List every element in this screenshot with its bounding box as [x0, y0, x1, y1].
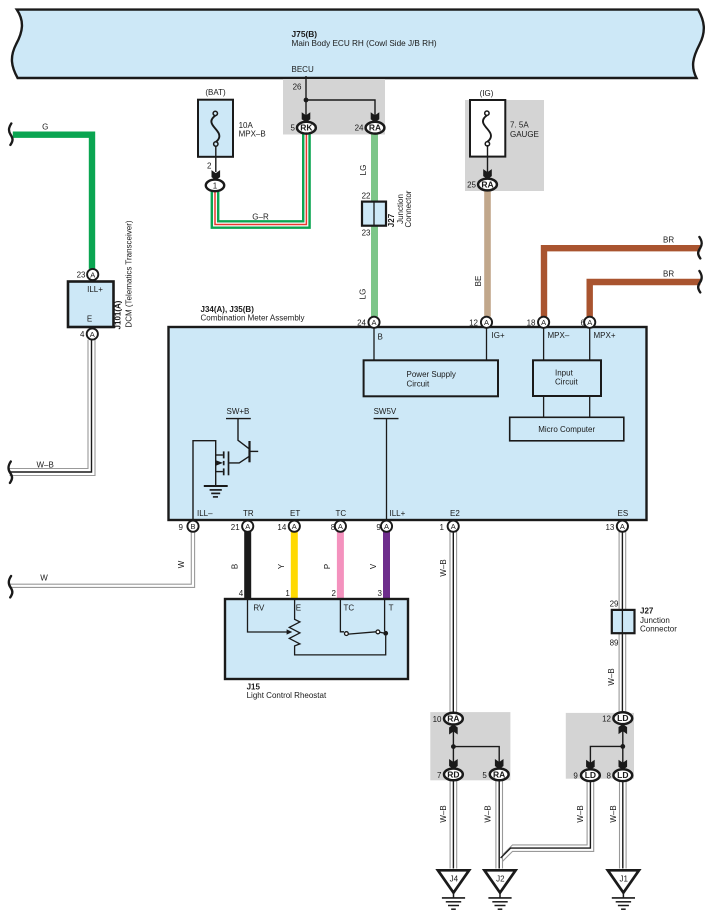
DCM J101(A) box [68, 282, 114, 328]
svg-text:10: 10 [433, 715, 442, 724]
wire W-B from 7 RD to ground J4 [450, 780, 457, 868]
svg-text:A: A [245, 522, 250, 531]
svg-text:18: 18 [527, 319, 536, 328]
svg-text:21: 21 [231, 523, 240, 532]
connector RA pin 25 [478, 179, 497, 191]
svg-text:B: B [378, 333, 383, 342]
svg-text:12: 12 [469, 319, 478, 328]
svg-text:ILL+: ILL+ [87, 285, 103, 294]
break W wire [9, 576, 13, 597]
wire B (black) TR to J15 pin 4 [244, 532, 251, 602]
svg-text:TC: TC [336, 509, 347, 518]
micro computer box [510, 417, 624, 441]
svg-text:W–B: W–B [609, 805, 618, 822]
pin 12 A [481, 317, 492, 328]
svg-text:2: 2 [331, 589, 336, 598]
svg-text:1: 1 [213, 181, 218, 190]
internal wire ILL- loop [193, 441, 216, 521]
svg-text:5: 5 [482, 771, 487, 780]
svg-text:Combination Meter Assembly: Combination Meter Assembly [201, 314, 305, 323]
internal wire MPX- to input circuit [543, 328, 545, 360]
svg-text:J1: J1 [619, 875, 628, 884]
svg-text:6: 6 [581, 319, 586, 328]
svg-text:MPX+: MPX+ [594, 331, 616, 340]
svg-text:J27: J27 [640, 607, 654, 616]
svg-text:7: 7 [437, 771, 442, 780]
wire V (violet) ILL+ to J15 pin 3 [383, 532, 390, 602]
pin 18 A [538, 317, 549, 328]
svg-text:4: 4 [80, 330, 85, 339]
pin 21 A [242, 521, 253, 532]
svg-text:B: B [190, 522, 195, 531]
svg-text:BECU: BECU [292, 65, 314, 74]
connector RA pin 24 [366, 122, 385, 134]
svg-text:J101(A): J101(A) [114, 300, 123, 329]
svg-text:9: 9 [179, 523, 184, 532]
svg-text:10A: 10A [239, 121, 254, 130]
input circuit box [533, 360, 601, 396]
wire W-B from 8 LD to ground J1 [620, 781, 627, 869]
svg-text:W–B: W–B [37, 461, 54, 470]
wire W from meter ILL- to left break [10, 532, 195, 588]
svg-text:Y: Y [277, 563, 286, 569]
svg-text:25: 25 [467, 181, 476, 190]
svg-text:MPX–: MPX– [548, 331, 570, 340]
wire BR lower (MPX+) [590, 282, 701, 317]
junction connector J27 box 2 [612, 610, 635, 633]
internal wire MPX+ to input circuit [589, 328, 591, 360]
rheostat wiper wire RV [248, 600, 288, 632]
svg-text:Light Control Rheostat: Light Control Rheostat [247, 691, 327, 700]
connector LD pin 9 [581, 769, 600, 781]
svg-text:13: 13 [605, 523, 614, 532]
svg-text:LD: LD [585, 770, 596, 780]
svg-text:8: 8 [331, 523, 336, 532]
svg-text:T: T [389, 604, 394, 613]
transistor Q (BJT) [238, 419, 249, 449]
svg-text:A: A [451, 522, 456, 531]
svg-text:W–B: W–B [483, 805, 492, 822]
svg-text:Micro Computer: Micro Computer [538, 425, 595, 434]
wire distribution right [590, 727, 622, 765]
svg-text:14: 14 [277, 523, 286, 532]
svg-text:RA: RA [369, 123, 381, 133]
node 1 [206, 180, 224, 192]
svg-text:J75(B): J75(B) [292, 29, 318, 39]
svg-text:A: A [620, 522, 625, 531]
svg-text:BE: BE [474, 276, 483, 287]
svg-text:W–B: W–B [439, 559, 448, 576]
svg-text:Circuit: Circuit [555, 378, 578, 387]
svg-text:A: A [541, 318, 546, 327]
svg-text:12: 12 [602, 715, 611, 724]
wire LG from RA 24 to meter pin 24 [371, 134, 378, 317]
connector LD pin 8 [613, 769, 632, 781]
wire Y (yellow) ET to J15 pin 1 [291, 532, 298, 602]
svg-text:26: 26 [293, 83, 302, 92]
wire W-B from meter ES through J27 to 12 LD [619, 532, 626, 713]
svg-text:9: 9 [573, 772, 578, 781]
svg-text:A: A [371, 318, 376, 327]
wires input circuit to micro computer [543, 396, 545, 417]
svg-text:9: 9 [376, 523, 381, 532]
svg-text:ET: ET [290, 509, 300, 518]
wire fuse to RA 25 [487, 145, 489, 172]
wire W-B from 5 RA to ground J2 [496, 780, 503, 868]
pin 13 A [617, 521, 628, 532]
svg-text:E2: E2 [450, 509, 460, 518]
junction connector J27 (LG wire) [362, 202, 386, 226]
svg-text:A: A [90, 330, 95, 339]
svg-text:4: 4 [239, 589, 244, 598]
svg-text:RV: RV [253, 604, 265, 613]
wire G-R from fuse node 1 to RK [215, 133, 306, 225]
wire BR upper (MPX-) [544, 248, 700, 317]
svg-text:RK: RK [300, 123, 313, 133]
svg-text:1: 1 [285, 589, 290, 598]
combination meter box J34(A) J35(B) [169, 327, 647, 520]
pin 9 B [187, 521, 198, 532]
pin 1 A [448, 521, 459, 532]
wire BECU 26 to RK and RA [306, 76, 375, 116]
svg-text:A: A [587, 318, 592, 327]
svg-text:P: P [323, 564, 332, 569]
svg-text:E: E [87, 315, 92, 324]
wire BE from IG fuse RA 25 to meter pin 12 [484, 190, 491, 316]
svg-text:GAUGE: GAUGE [510, 130, 539, 139]
svg-text:DCM (Telematics Transceiver): DCM (Telematics Transceiver) [125, 220, 134, 327]
connector RK pin 5 [297, 122, 316, 134]
connector RA pin 5 [490, 769, 509, 781]
break G wire [9, 124, 13, 145]
svg-text:A: A [90, 270, 95, 279]
pin 24 A [368, 317, 379, 328]
svg-text:TC: TC [344, 604, 355, 613]
switch TC [340, 600, 344, 632]
svg-text:LD: LD [617, 713, 628, 723]
svg-text:ES: ES [618, 509, 629, 518]
svg-text:G–R: G–R [252, 213, 269, 222]
svg-text:BR: BR [663, 270, 674, 279]
svg-text:E: E [296, 604, 301, 613]
wire P (pink) TC to J15 pin 2 [337, 532, 344, 602]
svg-text:A: A [384, 522, 389, 531]
svg-text:LD: LD [617, 770, 628, 780]
break BR wire 2 [698, 271, 702, 292]
svg-text:A: A [338, 522, 343, 531]
svg-text:B: B [231, 564, 240, 569]
svg-text:Connector: Connector [640, 625, 677, 634]
wire W-B from meter E2 to 10 RA [450, 532, 457, 714]
arrows into RK / RA [302, 112, 311, 122]
svg-text:ILL+: ILL+ [390, 509, 406, 518]
svg-text:RD: RD [447, 769, 459, 779]
shade box BECU connector [283, 79, 385, 135]
wire W-B from 9 LD joining ground J2 [501, 781, 594, 861]
svg-text:Input: Input [555, 369, 574, 378]
svg-text:RA: RA [493, 769, 505, 779]
shade box lower-left connector [430, 712, 510, 780]
pin 14 A [289, 521, 300, 532]
svg-text:G: G [42, 123, 48, 132]
svg-text:8: 8 [607, 772, 612, 781]
ground J2 [484, 870, 515, 909]
svg-text:24: 24 [355, 124, 364, 133]
svg-text:22: 22 [362, 192, 371, 201]
svg-text:SW+B: SW+B [227, 407, 250, 416]
break W-B wire [8, 462, 12, 483]
svg-text:2: 2 [207, 162, 212, 171]
fuse 10A MPX-B (BAT) [198, 100, 233, 157]
svg-text:A: A [292, 522, 297, 531]
svg-text:5: 5 [291, 124, 296, 133]
svg-text:3: 3 [378, 589, 383, 598]
connector RD pin 7 [444, 769, 463, 781]
connector RA pin 10 [444, 713, 463, 725]
svg-text:Connector: Connector [404, 190, 413, 227]
svg-text:W: W [177, 560, 186, 568]
svg-text:MPX–B: MPX–B [239, 130, 266, 139]
svg-text:W–B: W–B [576, 805, 585, 822]
wire distribution left [453, 727, 499, 764]
svg-text:ILL–: ILL– [197, 509, 213, 518]
svg-text:V: V [369, 563, 378, 569]
svg-text:TR: TR [243, 509, 254, 518]
svg-text:Circuit: Circuit [407, 380, 430, 389]
shade box lower-right connector [566, 713, 634, 779]
power supply circuit box [364, 360, 498, 396]
internal wire IG+ to power supply [486, 328, 488, 360]
svg-text:(IG): (IG) [480, 89, 494, 98]
svg-text:Main Body ECU RH (Cowl Side J/: Main Body ECU RH (Cowl Side J/B RH) [292, 39, 437, 48]
svg-text:J4: J4 [450, 875, 459, 884]
fuse 7.5A GAUGE (IG) [470, 100, 505, 157]
resistor zigzag [289, 600, 385, 655]
ground J4 [438, 870, 469, 909]
pin 6 A [584, 317, 595, 328]
svg-text:LG: LG [359, 165, 368, 176]
svg-text:W–B: W–B [607, 668, 616, 685]
svg-text:J2: J2 [496, 875, 505, 884]
ground J1 [608, 870, 639, 909]
svg-text:RA: RA [447, 714, 459, 724]
wire W-B from DCM E pin to left break [10, 340, 96, 476]
wire fuse to node 1 [215, 146, 217, 172]
break BR wire 1 [698, 237, 702, 258]
svg-text:(BAT): (BAT) [205, 88, 226, 97]
svg-text:SW5V: SW5V [374, 407, 397, 416]
svg-text:7. 5A: 7. 5A [510, 121, 529, 130]
svg-text:IG+: IG+ [492, 331, 505, 340]
internal ground [204, 486, 228, 497]
svg-text:23: 23 [77, 271, 86, 280]
svg-text:89: 89 [610, 639, 619, 648]
svg-text:LG: LG [359, 289, 368, 300]
connector LD pin 12 [613, 712, 632, 724]
svg-text:23: 23 [362, 229, 371, 238]
transistor MOSFET [228, 451, 230, 475]
wire G (green) from break to DCM ILL+ [13, 135, 92, 269]
svg-text:Power Supply: Power Supply [407, 370, 456, 379]
svg-text:J27: J27 [387, 213, 396, 227]
svg-text:W: W [40, 574, 48, 583]
pin 8 A [335, 521, 346, 532]
svg-text:RA: RA [481, 180, 493, 190]
shade box IG fuse [465, 100, 544, 191]
pin 9 A [381, 521, 392, 532]
J15 box [225, 599, 408, 679]
svg-text:24: 24 [357, 319, 366, 328]
svg-text:W–B: W–B [439, 805, 448, 822]
main body ECU banner J75(B) [12, 10, 704, 78]
svg-text:29: 29 [610, 600, 619, 609]
svg-text:BR: BR [663, 236, 674, 245]
svg-text:A: A [484, 318, 489, 327]
internal wire pin24 B to power supply [373, 328, 375, 360]
svg-text:1: 1 [440, 523, 445, 532]
